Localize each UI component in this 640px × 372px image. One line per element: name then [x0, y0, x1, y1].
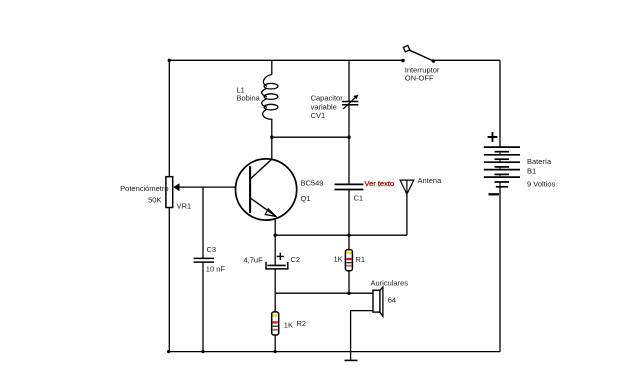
junction node C3 bottom [201, 350, 204, 353]
svg-text:Potenciómetro: Potenciómetro [120, 184, 168, 193]
wire C3 branch upper [202, 187, 204, 258]
wire output node horizontal to speaker [275, 292, 373, 294]
wire C2 upper lead [274, 235, 276, 265]
svg-text:1K: 1K [334, 255, 343, 264]
wire top rail right segment [433, 59, 500, 61]
svg-text:BC549: BC549 [301, 179, 324, 188]
antenna [400, 180, 414, 194]
label Interruptor ON-OFF [405, 66, 440, 83]
wire R1 bottom lead [348, 271, 350, 294]
wire antenna lead [406, 194, 408, 235]
svg-text:4,7uF: 4,7uF [244, 255, 264, 264]
resistor R1 [345, 250, 352, 271]
wire CV1 lower lead [348, 105, 350, 137]
label Capacitor variable CV1 [311, 93, 344, 120]
wire collector lead [271, 137, 273, 160]
svg-text:Batería: Batería [527, 157, 552, 166]
wire CV1 upper lead [348, 60, 350, 101]
svg-text:C1: C1 [354, 193, 364, 202]
resistor R2 [272, 312, 279, 335]
junction node top-left corner [168, 59, 171, 62]
label Potenciometro 50K VR1 [120, 184, 191, 211]
wire C2 lower lead [274, 270, 276, 294]
svg-text:9 Voltios: 9 Voltios [527, 179, 556, 188]
battery minus sign [489, 193, 500, 195]
wire speaker return [351, 311, 374, 352]
wire C1 lower lead to R1 [348, 190, 350, 250]
svg-text:1K: 1K [284, 321, 293, 330]
svg-text:Q1: Q1 [301, 194, 311, 203]
label Auriculares 64 [371, 278, 409, 304]
svg-text:CV1: CV1 [311, 111, 326, 120]
svg-text:Bobina: Bobina [237, 93, 261, 102]
variable capacitor CV1 [342, 95, 359, 109]
capacitor C1 [335, 184, 364, 189]
speaker (Auriculares) [373, 287, 383, 316]
junction node emitter [274, 234, 277, 237]
label 4,7uF C2 [244, 255, 301, 265]
wire left rail lower [168, 207, 170, 351]
wire emitter node horizontal [275, 234, 407, 236]
wire R2 lower lead [274, 335, 276, 352]
svg-text:C2: C2 [291, 255, 301, 264]
ground [345, 352, 358, 361]
label 1K R1 [334, 255, 366, 264]
svg-text:R2: R2 [297, 319, 307, 328]
wire left rail upper [168, 60, 170, 176]
wire bottom rail [168, 351, 500, 353]
wire right rail lower [499, 187, 501, 352]
junction node R1 top [347, 234, 350, 237]
label C3 10 nF [206, 245, 226, 274]
svg-text:R1: R1 [356, 255, 366, 264]
junction node coil-CV1 left [270, 136, 273, 139]
battery plus sign [488, 132, 498, 142]
label BC549 Q1 [301, 179, 324, 203]
svg-text:Capacitor: Capacitor [311, 93, 344, 102]
wire emitter lead [274, 220, 276, 236]
junction node coil-CV1 right [347, 136, 350, 139]
wire base (wiper to transistor base) [177, 186, 250, 188]
svg-text:Ver texto: Ver texto [365, 179, 395, 188]
svg-text:VR1: VR1 [177, 201, 192, 210]
svg-text:Auriculares: Auriculares [371, 278, 409, 287]
svg-text:50K: 50K [148, 195, 161, 204]
wire C3 branch lower [202, 262, 204, 352]
svg-text:B1: B1 [527, 166, 536, 175]
label 1K R2 [284, 319, 306, 329]
transistor Q1 BC549 [236, 159, 297, 220]
label Bateria B1 9 Voltios [527, 157, 556, 189]
svg-text:64: 64 [388, 296, 396, 305]
battery B1 [484, 147, 520, 187]
wire right rail upper [499, 60, 501, 147]
wire top rail left segment [169, 59, 403, 61]
potentiometer VR1 [166, 177, 180, 208]
capacitor C3 [194, 258, 214, 262]
capacitor C2 (electrolytic) [266, 253, 288, 269]
label L1 Bobina [237, 86, 261, 103]
wire C1 upper lead [348, 137, 350, 184]
wire R2 upper lead [274, 293, 276, 312]
svg-text:10 nF: 10 nF [206, 264, 226, 273]
svg-text:Antena: Antena [418, 176, 443, 185]
junction node bottom-left corner [167, 350, 170, 353]
junction node R2 bottom [274, 350, 277, 353]
svg-text:C3: C3 [207, 245, 217, 254]
inductor L1 Bobina [262, 60, 278, 137]
wire node A horizontal (coil bottom to CV1 bottom) [272, 136, 349, 138]
junction node R1 bottom [347, 292, 350, 295]
svg-text:ON-OFF: ON-OFF [405, 73, 434, 82]
switch S1 Interruptor ON-OFF [401, 45, 435, 62]
